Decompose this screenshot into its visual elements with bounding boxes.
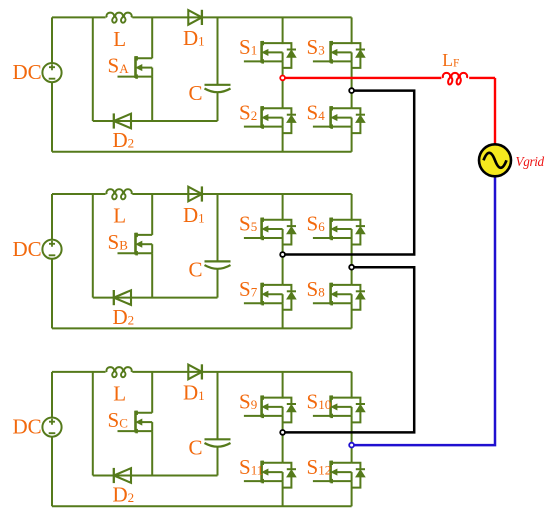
wire: SB source vertical stage B (151, 253, 153, 297)
svg-text:SB: SB (108, 230, 129, 254)
node: bridge B right output (black) (349, 265, 354, 270)
wire: left leg upper rail stage B (282, 194, 284, 221)
node: bridge A right output (black) (349, 88, 354, 93)
transistor S10 body stub with arrow (334, 406, 352, 408)
wire: left leg lower rail stage C (282, 481, 284, 506)
transistor S4 body diode (352, 108, 361, 114)
wire: SB drain vertical stage B (151, 194, 153, 235)
svg-text:S4: S4 (307, 101, 326, 125)
transistor SC source stub (136, 430, 153, 432)
diode D1 stage C (188, 365, 202, 380)
transistor S2 source stub (262, 126, 283, 128)
transistor S3 drain stub (331, 42, 352, 44)
transistor SB gate lead (118, 252, 136, 254)
transistor SA gate lead (118, 76, 136, 78)
svg-text:L: L (113, 382, 126, 406)
wire: capacitor branch upper stage C (217, 372, 219, 439)
transistor S12 drain stub (331, 462, 352, 464)
transistor SA channel bar (134, 56, 137, 78)
diode D1 stage A (188, 10, 202, 25)
wire: red vertical to Vgrid (494, 78, 496, 145)
wire: stage C left rail (51, 372, 53, 506)
svg-text:D1: D1 (183, 26, 205, 50)
transistor S12 body diode (352, 463, 361, 469)
transistor S5 body diode (283, 220, 292, 226)
wire: right leg lower rail stage B (351, 303, 353, 328)
transistor S6 body stub with arrow (334, 228, 352, 230)
wire: right leg upper rail stage A (351, 17, 353, 44)
wire: boost inner-left vertical stage B (92, 194, 94, 298)
wire: SA drain vertical stage A (151, 17, 153, 58)
wire: capacitor branch lower stage B (217, 269, 219, 298)
transistor S11 source stub (262, 480, 283, 482)
svg-text:D2: D2 (113, 128, 135, 152)
transistor S8 channel bar (329, 283, 332, 305)
svg-text:L: L (113, 204, 126, 228)
transistor S4 channel bar (329, 106, 332, 128)
svg-text:D2: D2 (113, 305, 135, 329)
svg-text:S9: S9 (239, 390, 257, 414)
transistor S10 source stub (331, 415, 352, 417)
inductor L stage C (106, 367, 131, 377)
transistor S10 body diode (352, 398, 361, 404)
transistor S8 source stub (331, 302, 352, 304)
transistor S5 source stub (262, 237, 283, 239)
wire: capacitor branch lower stage A (217, 92, 219, 121)
wire: stage C top rail right of L (132, 371, 351, 373)
DC source stage A (42, 63, 61, 82)
svg-text:S11: S11 (239, 455, 263, 479)
wire: stage B left rail (51, 194, 53, 328)
transistor SB source stub (136, 252, 153, 254)
transistor SC drain stub (136, 412, 153, 414)
transistor S7 body diode (283, 285, 292, 291)
wire: capacitor branch upper stage B (217, 194, 219, 261)
transistor S9 drain stub (262, 397, 283, 399)
svg-text:L: L (113, 27, 126, 51)
transistor SC gate lead (118, 430, 136, 432)
transistor S10 channel bar (329, 396, 332, 418)
transistor S2 body diode (283, 108, 292, 114)
wire: red phase wire from bridge A left node to filter (283, 77, 495, 79)
wire: freewheel row stage C (93, 475, 218, 477)
transistor S8 drain stub (331, 284, 352, 286)
transistor S1 drain stub (262, 42, 283, 44)
wire: capacitor branch lower stage C (217, 447, 219, 476)
wire: right leg lower rail stage A (351, 127, 353, 152)
transistor S1 channel bar (260, 41, 263, 63)
transistor S12 body stub with arrow (334, 471, 352, 473)
transistor S3 body stub with arrow (334, 51, 352, 53)
transistor S8 body diode (352, 285, 361, 291)
transistor S6 gate lead (313, 237, 331, 239)
transistor S11 body diode (283, 463, 292, 469)
transistor S2 gate lead (244, 126, 262, 128)
transistor S1 body diode (283, 43, 292, 49)
wire: black link bridge B right node to bridge C left node (283, 267, 415, 432)
transistor SA drain stub (136, 57, 153, 59)
transistor S7 drain stub (262, 284, 283, 286)
transistor S1 source stub (262, 60, 283, 62)
transistor S7 body stub with arrow (265, 293, 283, 295)
transistor S5 gate lead (244, 237, 262, 239)
wire: stage A top rail right of L (132, 16, 351, 18)
wire: freewheel row stage B (93, 297, 218, 299)
wire: stage C bottom rail (52, 505, 352, 507)
wire: left leg lower rail stage B (282, 303, 284, 328)
transistor S11 gate lead (244, 480, 262, 482)
svg-text:S3: S3 (307, 35, 325, 59)
capacitor C stage C (205, 438, 231, 440)
transistor S11 drain stub (262, 462, 283, 464)
svg-text:DC: DC (13, 60, 42, 84)
transistor S8 body stub with arrow (334, 293, 352, 295)
wire: right leg upper rail stage C (351, 372, 353, 399)
transistor S8 gate lead (313, 302, 331, 304)
transistor S6 drain stub (331, 219, 352, 221)
wire: right leg mid rail stage A (351, 61, 353, 108)
wire: capacitor branch upper stage A (217, 17, 219, 84)
wire: left leg upper rail stage C (282, 372, 284, 399)
transistor S9 body stub with arrow (265, 406, 283, 408)
svg-text:C: C (189, 258, 203, 282)
inductor L stage A (106, 13, 131, 23)
wire: right leg lower rail stage C (351, 481, 353, 506)
wire: stage A top rail left of L (52, 16, 106, 18)
transistor S4 source stub (331, 126, 352, 128)
svg-text:DC: DC (13, 415, 42, 439)
DC source stage B (42, 240, 61, 259)
wire: boost inner-left vertical stage C (92, 372, 94, 476)
svg-text:S1: S1 (239, 35, 257, 59)
transistor S6 source stub (331, 237, 352, 239)
svg-text:S8: S8 (307, 277, 325, 301)
transistor S11 channel bar (260, 461, 263, 483)
transistor S9 gate lead (244, 415, 262, 417)
transistor S3 body diode (352, 43, 361, 49)
transistor S5 channel bar (260, 218, 263, 240)
svg-text:LF: LF (442, 50, 459, 70)
svg-text:D1: D1 (183, 203, 205, 227)
node: bridge B left input (black) (280, 252, 285, 257)
wire: left leg mid rail stage A (282, 61, 284, 108)
transistor SC channel bar (134, 411, 137, 433)
svg-text:SA: SA (108, 54, 130, 78)
wire: boost inner-left vertical stage A (92, 17, 94, 121)
transistor S4 body stub with arrow (334, 117, 352, 119)
capacitor C stage A (205, 84, 231, 86)
transistor S6 channel bar (329, 218, 332, 240)
transistor SB channel bar (134, 233, 137, 255)
AC source Vgrid (479, 144, 511, 176)
wire: SC drain vertical stage C (151, 372, 153, 413)
transistor S9 channel bar (260, 396, 263, 418)
inductor LF (grid filter) (441, 72, 469, 80)
transistor S10 drain stub (331, 397, 352, 399)
transistor S5 drain stub (262, 219, 283, 221)
svg-text:D2: D2 (113, 483, 135, 507)
DC source stage C (42, 418, 61, 437)
wire: stage B top rail left of L (52, 193, 106, 195)
transistor S1 body stub with arrow (265, 51, 283, 53)
transistor SB drain stub (136, 234, 153, 236)
wire: right leg mid rail stage B (351, 238, 353, 285)
transistor S4 gate lead (313, 126, 331, 128)
svg-text:S10: S10 (307, 390, 332, 414)
wire: SC source vertical stage C (151, 431, 153, 475)
svg-text:C: C (189, 436, 203, 460)
wire: left leg upper rail stage A (282, 17, 284, 44)
svg-text:S2: S2 (239, 101, 257, 125)
wire: stage A left rail (51, 17, 53, 151)
diode D2 stage C (114, 468, 131, 483)
transistor S7 source stub (262, 302, 283, 304)
transistor S12 gate lead (313, 480, 331, 482)
svg-text:D1: D1 (183, 381, 205, 405)
wire: right leg upper rail stage B (351, 194, 353, 221)
svg-text:S12: S12 (307, 455, 332, 479)
node: bridge C left input (black) (280, 430, 285, 435)
transistor S12 source stub (331, 480, 352, 482)
svg-text:C: C (189, 81, 203, 105)
wire: stage B top rail right of L (132, 193, 351, 195)
transistor S7 gate lead (244, 302, 262, 304)
transistor SA source stub (136, 76, 153, 78)
transistor S2 channel bar (260, 106, 263, 128)
transistor SC body stub with arrow (139, 421, 153, 423)
transistor S3 source stub (331, 60, 352, 62)
transistor S9 source stub (262, 415, 283, 417)
transistor S3 channel bar (329, 41, 332, 63)
transistor S9 body diode (283, 398, 292, 404)
wire: left leg mid rail stage C (282, 416, 284, 463)
transistor S4 drain stub (331, 107, 352, 109)
wire: stage A bottom rail (52, 151, 352, 153)
diode D2 stage A (114, 114, 131, 129)
svg-text:S7: S7 (239, 277, 258, 301)
wire: left leg mid rail stage B (282, 238, 284, 285)
transistor S7 channel bar (260, 283, 263, 305)
svg-text:Vgrid: Vgrid (516, 154, 545, 169)
wire: blue return wire from Vgrid to bridge C right node (352, 177, 495, 446)
svg-text:SC: SC (108, 408, 128, 432)
transistor S11 body stub with arrow (265, 471, 283, 473)
transistor SB body stub with arrow (139, 243, 153, 245)
transistor S10 gate lead (313, 415, 331, 417)
wire: stage C top rail left of L (52, 371, 106, 373)
svg-text:DC: DC (13, 237, 42, 261)
diode D1 stage B (188, 187, 202, 202)
diode D2 stage B (114, 290, 131, 305)
wire: stage B bottom rail (52, 327, 352, 329)
svg-text:S5: S5 (239, 212, 257, 236)
wire: left leg lower rail stage A (282, 127, 284, 152)
wire: black link bridge A right node to bridge B left node (283, 91, 415, 255)
capacitor C stage B (205, 260, 231, 262)
node: bridge C right output (blue) (349, 443, 354, 448)
transistor S3 gate lead (313, 60, 331, 62)
transistor S2 drain stub (262, 107, 283, 109)
transistor SA body stub with arrow (139, 67, 153, 69)
transistor S5 body stub with arrow (265, 228, 283, 230)
transistor S2 body stub with arrow (265, 117, 283, 119)
wire: freewheel row stage A (93, 120, 218, 122)
svg-text:S6: S6 (307, 212, 326, 236)
inductor L stage B (106, 189, 131, 199)
wire: right leg mid rail stage C (351, 416, 353, 463)
transistor S1 gate lead (244, 60, 262, 62)
transistor S12 channel bar (329, 461, 332, 483)
node: bridge A left output (red) (280, 76, 285, 81)
transistor S6 body diode (352, 220, 361, 226)
wire: SA source vertical stage A (151, 77, 153, 121)
